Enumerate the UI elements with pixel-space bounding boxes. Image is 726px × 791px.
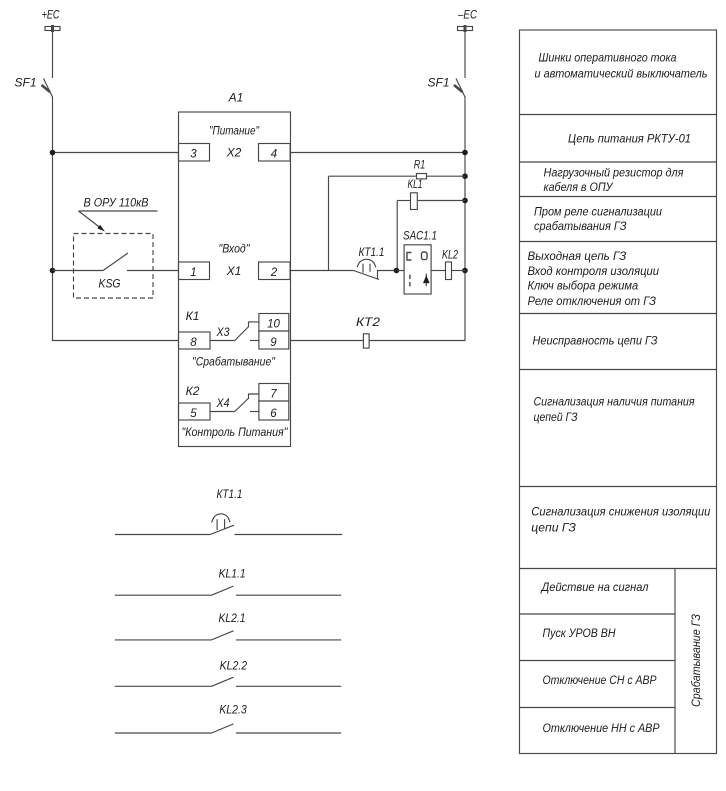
table row 3 text <box>544 166 685 195</box>
svg-text:Пуск УРОВ ВН: Пуск УРОВ ВН <box>543 626 616 640</box>
svg-text:Сигнализация снижения изоляции: Сигнализация снижения изоляции <box>531 505 710 519</box>
svg-text:3: 3 <box>190 149 197 161</box>
wire top bus left <box>53 152 179 154</box>
svg-text:Х1: Х1 <box>226 264 242 278</box>
svg-text:КТ2: КТ2 <box>356 315 380 329</box>
svg-text:KL2: KL2 <box>442 248 458 262</box>
contact KL2.3 <box>115 703 341 734</box>
svg-text:"Вход": "Вход" <box>219 242 251 256</box>
wire X1 row from box 2 <box>290 270 353 272</box>
wire left bus lower <box>53 97 179 341</box>
-EC terminal symbol <box>458 25 473 32</box>
node junction left top <box>50 150 56 156</box>
svg-text:"Питание": "Питание" <box>209 124 260 138</box>
node junction right y200 <box>462 198 468 204</box>
svg-text:срабатывания ГЗ: срабатывания ГЗ <box>534 219 627 233</box>
table row 1 text <box>535 51 708 81</box>
svg-text:+ЕС: +ЕС <box>42 8 60 22</box>
contact X3 <box>210 322 259 341</box>
node junction KT1.1-SAC <box>394 268 400 274</box>
contact KL2.2 <box>115 659 341 687</box>
wire right bus lower <box>291 97 466 341</box>
wire SAC to KL2 <box>431 270 445 272</box>
svg-text:KL2.3: KL2.3 <box>219 703 247 717</box>
svg-text:"Срабатывание": "Срабатывание" <box>192 355 276 369</box>
svg-text:Шинки оперативного тока: Шинки оперативного тока <box>539 51 677 65</box>
svg-text:Пром реле сигнализации: Пром реле сигнализации <box>534 205 662 219</box>
svg-text:В ОРУ 110кВ: В ОРУ 110кВ <box>84 196 149 210</box>
svg-text:KL1: KL1 <box>408 177 423 191</box>
wire KL2 to bus <box>452 270 466 272</box>
svg-text:Действие на сигнал: Действие на сигнал <box>540 580 649 594</box>
svg-text:7: 7 <box>270 389 277 401</box>
svg-text:Отключение НН с АВР: Отключение НН с АВР <box>543 721 660 735</box>
svg-text:9: 9 <box>270 337 277 349</box>
terminal box 2 <box>259 262 291 280</box>
table row 8 text <box>531 505 710 535</box>
svg-text:Цепь питания РКТУ-01: Цепь питания РКТУ-01 <box>568 132 691 146</box>
svg-text:Ключ выбора режима: Ключ выбора режима <box>528 279 639 293</box>
svg-text:SAC1.1: SAC1.1 <box>403 229 437 243</box>
svg-text:Срабатывание ГЗ: Срабатывание ГЗ <box>689 613 703 707</box>
block A1 outline <box>179 112 291 447</box>
svg-text:К2: К2 <box>186 384 200 398</box>
wire KSG row right <box>127 270 179 272</box>
svg-text:цепей ГЗ: цепей ГЗ <box>534 410 579 424</box>
terminal box 10 <box>259 314 289 332</box>
breaker SF1 (right) <box>427 76 465 98</box>
wire KSG row left <box>53 270 104 272</box>
+EC terminal symbol <box>45 25 60 32</box>
svg-text:6: 6 <box>270 408 277 420</box>
svg-text:Х3: Х3 <box>216 325 230 339</box>
wire right bus upper <box>464 31 466 79</box>
svg-text:Х2: Х2 <box>226 146 242 160</box>
table frame <box>520 30 717 754</box>
switch KSG blade <box>103 253 128 271</box>
svg-text:Отключение СН с АВР: Отключение СН с АВР <box>543 673 657 687</box>
terminal box 5 <box>179 403 211 420</box>
node junction right y175.7 <box>462 173 468 179</box>
node junction right y152 <box>462 150 468 156</box>
contact X4 <box>210 394 259 412</box>
svg-text:Нагрузочный резистор для: Нагрузочный резистор для <box>544 166 685 180</box>
svg-text:4: 4 <box>271 149 277 161</box>
contact KT1.1 (in circuit) <box>354 245 397 280</box>
node junction right y270 <box>462 268 468 274</box>
svg-text:1: 1 <box>190 267 196 279</box>
svg-text:Вход контроля изоляции: Вход контроля изоляции <box>528 264 660 278</box>
wire left bus upper <box>52 31 54 79</box>
svg-text:SF1: SF1 <box>427 76 449 90</box>
table row 5 text <box>528 249 660 308</box>
terminal box 7 <box>259 384 289 402</box>
svg-text:цепи ГЗ: цепи ГЗ <box>531 521 576 535</box>
terminal box 1 <box>179 262 210 280</box>
svg-text:10: 10 <box>267 319 280 331</box>
svg-text:SF1: SF1 <box>14 76 36 90</box>
table row 4 text <box>534 205 662 234</box>
selector switch SAC1.1 <box>403 229 437 295</box>
svg-text:Реле отключения от ГЗ: Реле отключения от ГЗ <box>528 294 657 308</box>
note "В ОРУ 110кВ" with leader arrow <box>79 196 158 232</box>
contact KL1.1 <box>115 567 341 596</box>
resistor R1 <box>329 158 466 271</box>
svg-text:А1: А1 <box>228 91 244 105</box>
svg-text:кабеля в ОПУ: кабеля в ОПУ <box>544 180 614 194</box>
relay coil KL1 <box>397 177 465 271</box>
svg-text:Сигнализация наличия питания: Сигнализация наличия питания <box>534 395 696 409</box>
svg-text:KL1.1: KL1.1 <box>219 567 246 581</box>
svg-text:KL2.1: KL2.1 <box>219 611 246 625</box>
svg-text:Выходная цепь ГЗ: Выходная цепь ГЗ <box>528 249 627 263</box>
svg-text:К1: К1 <box>186 309 200 323</box>
relay coil KT2 <box>356 315 380 348</box>
svg-text:5: 5 <box>190 408 197 420</box>
node junction left mid <box>50 268 56 274</box>
switch KSG (dashed box) <box>74 234 154 299</box>
svg-text:и автоматический выключатель: и автоматический выключатель <box>535 67 708 81</box>
svg-text:КТ1.1: КТ1.1 <box>217 487 243 501</box>
svg-text:KL2.2: KL2.2 <box>220 659 248 673</box>
table row 7 text <box>534 395 696 425</box>
svg-text:R1: R1 <box>414 158 426 172</box>
svg-text:8: 8 <box>190 337 197 349</box>
svg-text:Неисправность цепи ГЗ: Неисправность цепи ГЗ <box>533 334 659 348</box>
svg-text:–ЕС: –ЕС <box>457 8 477 22</box>
terminal box 6 <box>259 401 289 420</box>
svg-text:"Контроль Питания": "Контроль Питания" <box>182 425 289 439</box>
contact KL2.1 <box>115 611 341 640</box>
svg-text:2: 2 <box>270 267 278 279</box>
breaker SF1 (left) <box>14 76 52 98</box>
wire to SAC <box>397 270 405 272</box>
terminal box 9 <box>259 331 289 349</box>
terminal box 3 <box>179 144 210 162</box>
contact KT1.1 (signal row) <box>115 487 342 535</box>
relay coil KL2 <box>442 248 458 280</box>
svg-text:КТ1.1: КТ1.1 <box>359 245 385 259</box>
terminal box 8 <box>179 332 211 349</box>
svg-text:Х4: Х4 <box>216 396 230 410</box>
terminal box 4 <box>259 144 291 162</box>
wire top bus right <box>290 152 465 154</box>
svg-text:KSG: KSG <box>99 277 121 291</box>
